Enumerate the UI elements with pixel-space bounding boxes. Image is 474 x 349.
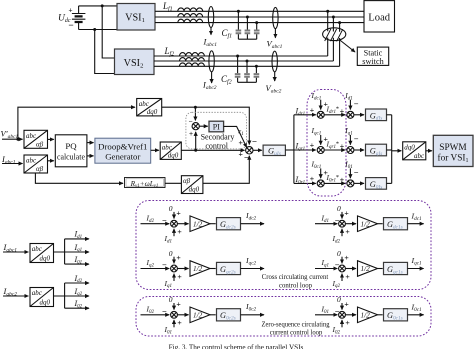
svg-text:I01: I01 (74, 255, 83, 265)
svg-text:−: − (252, 137, 257, 147)
wire zero stub q left (173, 257, 175, 264)
SPWM box (433, 135, 473, 166)
svg-text:+: + (310, 174, 315, 183)
svg-text:−: − (354, 168, 359, 177)
wire bottom stub q left (173, 274, 175, 281)
battery Udc (68, 6, 85, 30)
svg-text:I02: I02 (332, 325, 341, 335)
svg-text:0: 0 (337, 295, 341, 304)
wire q branch (294, 149, 316, 151)
wire sum to gain d left (177, 223, 188, 225)
svg-text:PQ: PQ (65, 141, 77, 151)
droop generator box (95, 138, 151, 163)
svg-text:+: + (176, 299, 181, 308)
svg-text:I01: I01 (321, 305, 330, 315)
svg-text:I01: I01 (164, 325, 173, 335)
svg-text:Udc: Udc (58, 14, 71, 25)
wire z2 to G0Is (354, 182, 364, 184)
summing junction q right (339, 265, 346, 272)
wire VSI2 phase c (154, 65, 340, 67)
arrow Vabc2 (274, 72, 276, 81)
svg-text:Idc2: Idc2 (245, 211, 257, 221)
svg-text:Iqc1: Iqc1 (311, 126, 322, 136)
wire input q right (315, 268, 337, 270)
svg-text:Lf2: Lf2 (164, 46, 175, 58)
wire input d left (141, 223, 170, 225)
svg-text:Iqr1*: Iqr1* (326, 140, 340, 150)
wire dq0-abc to SPWM (426, 150, 432, 152)
capacitor Cf1 (236, 11, 260, 39)
wire sum to gain z left (177, 314, 188, 316)
svg-text:Id2: Id2 (332, 234, 341, 244)
svg-text:−: − (162, 261, 167, 270)
wire q1 to q2 (324, 149, 345, 151)
block Gqc2s (217, 262, 241, 275)
node switch c (338, 21, 341, 24)
svg-text:0: 0 (169, 204, 173, 213)
block GdIs (366, 109, 387, 122)
wire VSI1 phase a (155, 10, 364, 12)
transform abc-dq0 I2 (30, 288, 54, 307)
svg-text:calculate: calculate (57, 151, 85, 161)
current sensor Iabc2 (209, 51, 214, 72)
wire I2 split (54, 283, 65, 308)
svg-text:+: + (68, 8, 72, 15)
switch blade c (337, 23, 343, 67)
svg-text:Id1: Id1 (321, 213, 330, 223)
gain half z left (190, 307, 210, 323)
svg-text:αβ: αβ (183, 177, 191, 185)
wire Rv box to alphabeta-dq0 (165, 182, 181, 184)
svg-text:1/2: 1/2 (193, 220, 203, 228)
node switch a (326, 10, 329, 13)
wire bottom stub d right (341, 229, 343, 236)
transform dq0-abc (403, 142, 426, 160)
svg-text:−: − (162, 216, 167, 225)
block G0Is (366, 178, 387, 191)
wire GqIs to merge (387, 149, 392, 151)
wire bottom stub d left (173, 229, 175, 236)
wire DC plus rail (79, 5, 117, 7)
wire input d right (315, 223, 337, 225)
svg-text:Load: Load (368, 12, 390, 23)
wire Vref up to secondary sum (195, 132, 197, 150)
block Gdc2s (217, 218, 241, 231)
summing junction q2 (347, 147, 354, 154)
wire output I0c2 (241, 314, 265, 316)
block Gdc1s (384, 218, 408, 231)
gain half q right (358, 261, 378, 277)
svg-text:dq0: dq0 (147, 108, 158, 116)
node Vabc1 branch (16, 138, 19, 141)
block GuIs (263, 145, 285, 157)
svg-text:Id1: Id1 (164, 234, 173, 244)
svg-text:+: + (340, 107, 345, 116)
summing junction z right (339, 311, 346, 318)
summing junction z1 (317, 180, 324, 187)
summing junction d1 (317, 111, 324, 118)
wire PQ out Q (87, 155, 94, 157)
wire I02 out (65, 307, 89, 309)
svg-text:I0r1*: I0r1* (326, 173, 340, 183)
transform abc-dq0 Vmeas (137, 99, 162, 117)
wire gain to block d left (210, 223, 216, 225)
wire gain to block d right (378, 223, 383, 225)
node minus rail (93, 28, 96, 31)
svg-text:+: + (177, 272, 182, 281)
svg-text:Iqr1: Iqr1 (295, 142, 306, 153)
wire I alphabeta to PQ (48, 160, 54, 162)
svg-text:Secondary: Secondary (201, 133, 235, 142)
wire output Idc1 (408, 223, 424, 225)
wire I01 out (65, 263, 89, 265)
summing junction q1 (317, 147, 324, 154)
svg-text:I0c1: I0c1 (311, 160, 322, 170)
svg-text:abc: abc (26, 132, 37, 140)
wire merge to dq0-abc (392, 150, 402, 152)
svg-text:Idc1: Idc1 (411, 211, 423, 221)
svg-text:αβ: αβ (36, 165, 44, 173)
svg-text:dq0: dq0 (189, 186, 200, 194)
wire Iq2 out (65, 295, 89, 297)
capacitor Cf2 (235, 56, 259, 82)
svg-text:+: + (176, 253, 181, 262)
wire plus rail to VSI2 (102, 6, 114, 58)
svg-text:+: + (177, 318, 182, 327)
wire Iabc2 to transform (3, 295, 28, 297)
PQ calculate box (55, 135, 87, 167)
svg-text:+: + (344, 208, 349, 217)
svg-text:I0r1: I0r1 (295, 175, 306, 186)
inverter VSI1 (117, 4, 155, 31)
wire VSI2 phase b (154, 60, 333, 62)
block Gqc1s (384, 262, 408, 275)
svg-text:Id1: Id1 (344, 91, 353, 101)
svg-text:abc: abc (26, 157, 37, 165)
svg-text:Iq1: Iq1 (344, 126, 353, 136)
summing junction secondary (192, 123, 199, 130)
wire I1 split (54, 239, 65, 264)
svg-text:Fig. 3. The control scheme of: Fig. 3. The control scheme of the parall… (169, 344, 304, 349)
transform abc-dq0 I1 (30, 244, 54, 263)
svg-text:+: + (310, 141, 315, 150)
svg-text:I0c1: I0c1 (411, 303, 423, 313)
wire q2 to GqIs (354, 149, 364, 151)
svg-text:ε1: ε1 (238, 126, 243, 137)
svg-text:dq0: dq0 (168, 152, 179, 160)
svg-text:Iq2: Iq2 (332, 279, 341, 289)
svg-text:abc: abc (414, 152, 425, 160)
block G0c2s (217, 309, 241, 322)
wire VSI1 phase b (155, 16, 364, 18)
wire V feedback to abc-dq0 (18, 107, 135, 139)
circulating compensation dashed box (307, 90, 346, 197)
svg-text:+: + (239, 138, 244, 147)
wire DC minus rail (79, 29, 117, 31)
svg-text:Vabc2: Vabc2 (266, 83, 282, 95)
node cap b1 (246, 16, 249, 19)
node cap c2 (255, 65, 258, 68)
wire input z left (141, 314, 170, 316)
wire Vabc1 input (2, 138, 23, 140)
svg-text:0: 0 (337, 249, 341, 258)
wire output Iqc2 (241, 268, 265, 270)
svg-text:control loop: control loop (279, 281, 312, 290)
wire d2 to GdIs (354, 114, 364, 116)
wire input z right (315, 314, 337, 316)
wire PQ out P (87, 142, 94, 144)
svg-text:+: + (239, 150, 244, 159)
wire d1 to d2 (324, 114, 345, 116)
wire VSI2 phase a (154, 55, 328, 57)
wire input q left (141, 268, 170, 270)
wire Iqc1 into sum (320, 135, 322, 145)
wire merge vertical (391, 115, 393, 184)
svg-text:1/2: 1/2 (361, 265, 371, 273)
svg-text:I02: I02 (74, 299, 83, 309)
wire output Idc2 (241, 223, 265, 225)
node cap a1 (237, 10, 240, 13)
wire bottom stub q right (341, 274, 343, 281)
wire I01 into sum (349, 168, 351, 178)
wire Vref to main sum (181, 149, 244, 151)
node switch b (332, 16, 335, 19)
wire droop to abc-dq0 (151, 149, 159, 151)
svg-text:0: 0 (337, 204, 341, 213)
wire z1 to z2 (324, 182, 345, 184)
summing junction z left (171, 311, 178, 318)
wire sum to gain d right (345, 223, 356, 225)
wire Iabc1 input (2, 163, 23, 165)
svg-text:+: + (344, 253, 349, 262)
wire gain to block q left (210, 268, 216, 270)
wire gain to block z right (378, 314, 383, 316)
gain half d left (190, 216, 210, 232)
svg-text:Id2: Id2 (146, 213, 155, 223)
wire V alphabeta to PQ (48, 138, 54, 140)
inverter VSI2 (115, 49, 155, 75)
wire Vmeas dq0 line (162, 107, 250, 144)
wire zero stub z right (341, 303, 343, 310)
node cap a2 (236, 55, 239, 58)
summing junction q left (171, 265, 178, 272)
svg-text:Vabc1: Vabc1 (267, 39, 283, 51)
svg-text:−: − (354, 100, 359, 109)
gain half q left (190, 261, 210, 277)
svg-text:Idr1: Idr1 (295, 106, 306, 117)
wire Idc1 into sum (320, 100, 322, 110)
svg-text:Iq2: Iq2 (146, 258, 155, 268)
svg-text:I01: I01 (344, 160, 353, 170)
wire zero stub q right (341, 257, 343, 264)
wire d branch (294, 114, 316, 116)
svg-text:+: + (177, 227, 182, 236)
svg-text:Iq2: Iq2 (74, 287, 83, 297)
svg-text:+: + (345, 227, 350, 236)
wire Iq1 into sum (349, 135, 351, 145)
wire GuIs to split (285, 149, 294, 151)
svg-text:Lf1: Lf1 (162, 1, 173, 13)
switch blade a (325, 11, 331, 56)
zero-sequence loop dashed box (136, 297, 431, 337)
svg-text:0: 0 (169, 295, 173, 304)
arrow Iabc1 (210, 28, 212, 35)
svg-text:Id2: Id2 (74, 274, 83, 284)
node Vref branch (194, 149, 197, 152)
svg-text:Cf1: Cf1 (222, 28, 233, 40)
wire gain to block z left (210, 314, 216, 316)
wire 0 branch (294, 182, 316, 184)
svg-text:abc: abc (32, 289, 43, 297)
svg-text:Iabc2: Iabc2 (202, 80, 217, 92)
wire bottom stub z left (173, 320, 175, 327)
wire Id2 out (65, 282, 89, 284)
svg-text:+: + (310, 106, 315, 115)
svg-text:switch: switch (362, 57, 383, 66)
wire zero stub d left (173, 212, 175, 219)
svg-text:αβ: αβ (36, 140, 44, 148)
summing junction main (246, 147, 253, 154)
block GqIs (366, 144, 387, 157)
wire sum to gain q right (345, 268, 356, 270)
svg-text:+: + (340, 142, 345, 151)
block G0c1s (384, 309, 408, 322)
wire output I0c1 (408, 314, 424, 316)
svg-text:+: + (340, 175, 345, 184)
wire main sum to GuIs (253, 149, 262, 151)
svg-text:+: + (345, 272, 350, 281)
svg-text:−: − (189, 119, 193, 126)
svg-text:PI: PI (213, 123, 220, 132)
svg-text:dq0: dq0 (40, 254, 51, 262)
svg-text:Generator: Generator (105, 152, 140, 162)
svg-text:Iq1: Iq1 (74, 243, 83, 253)
wire secondary sum to PI (199, 125, 207, 127)
svg-text:+: + (344, 299, 349, 308)
summing junction d2 (347, 111, 354, 118)
svg-text:for VSI1: for VSI1 (438, 153, 469, 165)
svg-text:control: control (205, 141, 228, 150)
arrow Iabc2 (211, 72, 213, 83)
arrow to static switch box (340, 40, 355, 52)
svg-text:−: − (354, 135, 359, 144)
wire Id1 out (65, 238, 89, 240)
wire I0c1 into sum (320, 168, 322, 178)
svg-text:0: 0 (169, 249, 173, 258)
svg-text:I0c2: I0c2 (245, 302, 257, 312)
arrow Vabc1 (274, 29, 276, 38)
svg-text:current control loop: current control loop (270, 328, 323, 337)
svg-text:abc: abc (32, 245, 43, 253)
wire Id1 into sum (349, 100, 351, 110)
wire Vmeas down to secondary sum (194, 107, 196, 120)
wire current ref split (293, 115, 295, 184)
summing junction z2 (347, 180, 354, 187)
wire VSI1 phase c (155, 22, 364, 24)
node plus rail (101, 4, 104, 7)
transform abc-alphabeta I (24, 155, 48, 173)
voltage sensor Vabc2 (272, 51, 277, 72)
svg-text:I02: I02 (146, 305, 155, 315)
static switch box (357, 47, 388, 66)
load box (364, 1, 395, 32)
svg-text:−: − (244, 153, 249, 163)
wire I branch to virtual impedance (35, 173, 123, 183)
wire Iabc1 to transform (3, 251, 28, 253)
svg-text:+: + (345, 318, 350, 327)
secondary control dashed box (186, 112, 247, 149)
wire GdIs to merge (387, 114, 392, 116)
transform abc-dq0 Vref (160, 142, 181, 160)
svg-text:Id1: Id1 (74, 230, 83, 240)
gain half z right (358, 307, 378, 323)
cross circulating loop dashed box (136, 201, 431, 290)
summing junction d left (171, 220, 178, 227)
svg-text:SPWM: SPWM (439, 143, 466, 153)
svg-text:Idc1: Idc1 (311, 91, 322, 101)
wire minus rail to VSI2 (95, 30, 115, 74)
svg-text:+: + (176, 208, 181, 217)
wire virtual impedance to main sum (203, 156, 249, 184)
gain half d right (358, 216, 378, 232)
svg-text:Iabc1: Iabc1 (203, 37, 218, 49)
svg-text:dq0: dq0 (40, 298, 51, 306)
svg-text:+: + (189, 131, 193, 138)
summing junction d right (339, 220, 346, 227)
svg-text:1/2: 1/2 (361, 220, 371, 228)
PI box (209, 121, 224, 132)
svg-text:1/2: 1/2 (193, 312, 203, 320)
transform abc-alphabeta V (24, 130, 48, 148)
inductor Lf1 (178, 8, 203, 23)
svg-text:V′abc1: V′abc1 (1, 129, 19, 141)
static switch ellipse (323, 28, 346, 41)
svg-text:Iq1: Iq1 (164, 279, 173, 289)
wire zero stub z left (173, 303, 175, 310)
svg-text:abc: abc (139, 100, 150, 108)
voltage sensor Vabc1 (273, 7, 278, 28)
svg-text:1/2: 1/2 (193, 265, 203, 273)
svg-text:Droop&Vref1: Droop&Vref1 (98, 141, 147, 151)
wire output Iqc1 (408, 268, 424, 270)
wire PI to main sum (224, 126, 247, 147)
svg-text:Iq1: Iq1 (321, 258, 330, 268)
node cap c1 (255, 21, 258, 24)
svg-text:Idr1*: Idr1* (326, 105, 340, 115)
svg-text:1/2: 1/2 (361, 312, 371, 320)
svg-text:dq0: dq0 (404, 143, 415, 151)
svg-text:abc: abc (162, 143, 173, 151)
wire sum to gain q left (177, 268, 188, 270)
wire sum to gain z right (345, 314, 356, 316)
svg-text:Cf2: Cf2 (221, 74, 232, 86)
node Vmeas to secondary (194, 106, 197, 109)
wire G0Is to merge (387, 182, 392, 184)
current sensor Iabc1 (208, 7, 213, 28)
wire gain to block q right (378, 268, 383, 270)
node cap b2 (246, 60, 249, 63)
wire Iq1 out (65, 251, 89, 253)
transform alphabeta-dq0 (181, 176, 203, 194)
virtual impedance box Rv1+wLv1 (125, 178, 166, 190)
wire zero stub d right (341, 212, 343, 219)
svg-text:Iqc2: Iqc2 (245, 256, 257, 266)
switch blade b (330, 17, 336, 61)
svg-text:−: − (162, 307, 167, 316)
wire bottom stub z right (341, 320, 343, 327)
inductor Lf2 (180, 53, 205, 67)
svg-text:Iqc1: Iqc1 (411, 256, 423, 266)
